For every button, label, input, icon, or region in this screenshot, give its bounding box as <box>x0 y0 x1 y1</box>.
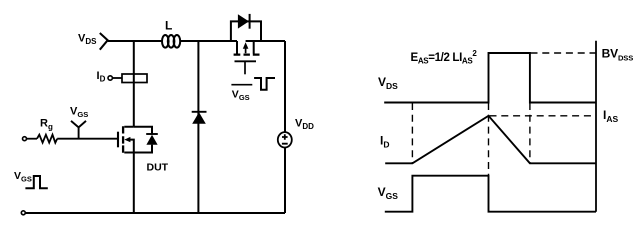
svg-text:EAS=1/2 LIAS2: EAS=1/2 LIAS2 <box>411 49 478 66</box>
svg-text:Rg: Rg <box>40 118 53 132</box>
svg-text:BVDSS: BVDSS <box>602 47 634 63</box>
svg-text:VGS: VGS <box>232 89 250 102</box>
svg-text:DUT: DUT <box>147 162 169 174</box>
svg-text:VDD: VDD <box>295 117 314 131</box>
svg-text:VDS: VDS <box>378 75 398 91</box>
svg-text:ID: ID <box>380 134 389 150</box>
svg-text:VGS: VGS <box>14 170 32 183</box>
svg-text:VDS: VDS <box>78 33 97 47</box>
svg-text:VGS: VGS <box>70 105 88 119</box>
svg-text:L: L <box>165 19 172 33</box>
svg-text:IAS: IAS <box>603 108 618 124</box>
svg-text:VGS: VGS <box>378 185 399 201</box>
svg-text:ID: ID <box>97 70 106 84</box>
